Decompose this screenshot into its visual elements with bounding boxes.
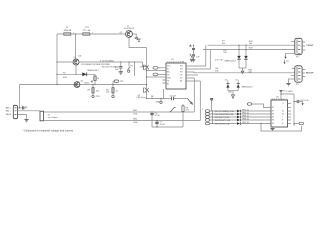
svg-text:P3: P3 bbox=[272, 114, 274, 116]
LED D2 bbox=[238, 45, 240, 68]
power flag U2 bbox=[280, 90, 282, 92]
wire Q1 emitter bbox=[75, 65, 77, 74]
ground U2 bbox=[272, 127, 274, 128]
svg-text:BAT -: BAT - bbox=[6, 110, 11, 113]
wire U1 bottom drop bbox=[163, 89, 165, 99]
svg-text:NDS: NDS bbox=[85, 82, 90, 84]
gate clamp bbox=[132, 34, 136, 37]
transistor T1 bbox=[126, 31, 133, 38]
svg-text:MSP430F11: MSP430F11 bbox=[272, 99, 288, 101]
svg-text:PR1: PR1 bbox=[96, 96, 101, 98]
svg-text:4.7uF: 4.7uF bbox=[160, 124, 166, 126]
svg-text:BLOCK ON (3900): BLOCK ON (3900) bbox=[102, 66, 119, 68]
wire lower mid rail bbox=[57, 73, 95, 75]
svg-text:G: G bbox=[282, 123, 284, 125]
svg-text:SB: SB bbox=[180, 81, 183, 83]
svg-text:PACK: PACK bbox=[6, 113, 12, 116]
wire BAT- to module bbox=[18, 110, 41, 112]
svg-text:P3: P3 bbox=[296, 57, 299, 59]
wire U1 ST2 to J2 bbox=[190, 71, 295, 74]
J1 pin4 to ground bbox=[286, 53, 295, 57]
wire U1 pin GND bbox=[147, 76, 163, 78]
switch common rail bbox=[211, 111, 213, 124]
svg-text:P2: P2 bbox=[286, 61, 289, 63]
svg-text:SW4 (RIGHT) 0.5A: SW4 (RIGHT) 0.5A bbox=[215, 119, 231, 122]
svg-text:GND: GND bbox=[288, 91, 293, 93]
transistor Q4 bbox=[143, 65, 149, 70]
capacitor C5 bbox=[22, 106, 23, 109]
svg-text:bq24002PW: bq24002PW bbox=[168, 61, 185, 63]
svg-text:10k: 10k bbox=[223, 52, 227, 54]
svg-text:GND: GND bbox=[228, 91, 233, 93]
svg-text:10k: 10k bbox=[106, 92, 110, 94]
svg-text:PTC 1A: PTC 1A bbox=[83, 29, 91, 32]
svg-text:PB1_A: PB1_A bbox=[242, 108, 249, 111]
svg-text:V: V bbox=[282, 103, 284, 105]
svg-text:4.7k ON (3900): 4.7k ON (3900) bbox=[100, 61, 114, 63]
transistor Q5 bbox=[143, 88, 149, 93]
wire under-IC rail bbox=[147, 98, 188, 100]
wire row A bbox=[44, 111, 195, 113]
svg-text:X2: X2 bbox=[282, 114, 284, 116]
transistor Q2 bbox=[74, 82, 80, 88]
U1 right pins bbox=[186, 66, 190, 81]
svg-text:1uF: 1uF bbox=[196, 57, 200, 59]
svg-text:VCC: VCC bbox=[283, 91, 288, 93]
wire U2 top to right rail bbox=[281, 94, 294, 126]
junction bbox=[75, 33, 76, 34]
switch row 2 bbox=[205, 113, 209, 116]
terminal P1 bbox=[160, 99, 162, 102]
U2 right stubs bbox=[288, 104, 292, 124]
svg-text:SW3 (LEFT) 0.5A: SW3 (LEFT) 0.5A bbox=[215, 116, 230, 119]
J1 right stubs bbox=[302, 42, 305, 50]
test point row 0 bbox=[247, 103, 251, 106]
svg-text:P4: P4 bbox=[272, 117, 274, 119]
switch row 4 bbox=[205, 119, 209, 122]
svg-text:R4: R4 bbox=[88, 89, 91, 91]
svg-text:PB4_A: PB4_A bbox=[242, 117, 249, 120]
svg-text:MBR0520LT: MBR0520LT bbox=[225, 61, 237, 63]
fuse F1 bbox=[64, 33, 71, 35]
wire left rail bbox=[56, 34, 58, 85]
wire U1 pin VS bbox=[147, 70, 163, 72]
svg-text:PB5_A: PB5_A bbox=[242, 121, 249, 124]
svg-text:MBR0520LT: MBR0520LT bbox=[242, 86, 254, 88]
connector J2 bbox=[295, 66, 302, 82]
J2 pin4 to ground bbox=[289, 79, 295, 83]
resistor R3 bbox=[94, 74, 96, 84]
svg-text:MBR0520LT: MBR0520LT bbox=[88, 70, 100, 72]
switch row 3 bbox=[205, 116, 209, 119]
svg-text:BAT +: BAT + bbox=[6, 107, 12, 110]
capacitor C4 cluster bbox=[193, 45, 195, 59]
wire U1 ST1 up bbox=[190, 45, 206, 66]
resistor R9 bbox=[182, 104, 184, 127]
svg-text:P5: P5 bbox=[272, 120, 274, 122]
capacitor C2 bbox=[120, 62, 122, 71]
wire top rail bbox=[57, 33, 126, 35]
J2 pin3 stub bbox=[291, 75, 295, 77]
resistor R4 chain bbox=[92, 85, 94, 96]
svg-text:GND: GND bbox=[156, 102, 161, 104]
test point TP4 bbox=[299, 122, 303, 125]
svg-text:FIELD PUMP: FIELD PUMP bbox=[306, 72, 314, 74]
svg-text:GND: GND bbox=[167, 78, 172, 80]
svg-text:MINI 2A: MINI 2A bbox=[64, 29, 72, 32]
svg-text:P6: P6 bbox=[272, 123, 274, 125]
J1 pin1 stub bbox=[291, 41, 295, 43]
switch row 1 bbox=[205, 110, 209, 113]
svg-text:4.7uF: 4.7uF bbox=[155, 115, 161, 117]
svg-text:P4: P4 bbox=[296, 84, 299, 86]
capacitor C8 bbox=[294, 101, 303, 103]
wire rail R2TOP bbox=[203, 49, 295, 51]
svg-text:Q1: Q1 bbox=[73, 57, 77, 59]
connector P3 battery bbox=[13, 105, 17, 118]
svg-text:4.7k: 4.7k bbox=[185, 110, 190, 112]
U1 left pins bbox=[163, 68, 167, 83]
wire bottom loop bbox=[261, 124, 302, 132]
svg-text:R: R bbox=[282, 120, 284, 122]
svg-text:SW1 (FORWARD) 0.5A: SW1 (FORWARD) 0.5A bbox=[215, 110, 235, 113]
ground arrow bbox=[242, 68, 244, 71]
IC U2 bbox=[271, 100, 288, 127]
diode D4 bbox=[227, 80, 229, 91]
svg-text:ST1: ST1 bbox=[180, 66, 183, 68]
svg-text:1k: 1k bbox=[97, 78, 100, 80]
net vertical VBAT bbox=[146, 48, 148, 99]
LED D3 bbox=[239, 45, 246, 68]
wire T1 drain drop bbox=[129, 37, 147, 47]
diode D1 bbox=[82, 72, 86, 76]
svg-text:BT: BT bbox=[167, 84, 169, 86]
svg-text:1: 1 bbox=[202, 109, 204, 111]
svg-text:100k: 100k bbox=[133, 122, 138, 124]
wire drop to Q1 bbox=[75, 34, 77, 59]
ground bbox=[119, 72, 123, 75]
resistor R5 chain bbox=[112, 85, 114, 96]
transistor Q1 bbox=[73, 59, 79, 65]
svg-text:10k: 10k bbox=[215, 70, 219, 72]
pushbutton SW1 bbox=[188, 99, 193, 105]
U1 pin names bbox=[167, 66, 183, 86]
svg-text:SO: SO bbox=[180, 78, 183, 80]
switch row 5 bbox=[205, 122, 209, 125]
connector J1 bbox=[295, 38, 302, 54]
svg-text:TP1: TP1 bbox=[120, 81, 125, 83]
capacitor C3 series bbox=[171, 97, 173, 101]
svg-text:T: T bbox=[282, 117, 283, 119]
svg-text:100k: 100k bbox=[63, 77, 68, 79]
svg-text:+: + bbox=[21, 105, 23, 107]
svg-text:C3 1uF: C3 1uF bbox=[169, 96, 176, 98]
svg-text:TS: TS bbox=[167, 81, 170, 83]
power flag VCC4 bbox=[210, 99, 212, 101]
svg-text:* Optimized for required volta: * Optimized for required voltage and cur… bbox=[23, 128, 74, 132]
pushbutton SW3 bbox=[171, 108, 176, 112]
U2 pin names bbox=[272, 103, 284, 125]
svg-text:abc Super I: abc Super I bbox=[48, 116, 59, 119]
wire mid rail through Q1 bbox=[57, 62, 147, 67]
svg-text:SW5 (STOP) 0.5A: SW5 (STOP) 0.5A bbox=[215, 122, 230, 125]
svg-text:1k: 1k bbox=[116, 90, 119, 92]
svg-text:4.7k ON: 4.7k ON bbox=[215, 60, 223, 62]
svg-text:TO A PUMP: TO A PUMP bbox=[306, 44, 314, 47]
wire bottom rail BAT+ bbox=[20, 84, 147, 86]
svg-text:PG: PG bbox=[180, 72, 183, 74]
svg-text:ST2: ST2 bbox=[180, 69, 183, 71]
svg-text:PB3_A: PB3_A bbox=[242, 114, 249, 117]
test point TP2 bbox=[153, 66, 158, 69]
svg-text:1nF: 1nF bbox=[115, 69, 119, 71]
svg-text:PB2_A: PB2_A bbox=[242, 111, 249, 114]
svg-text:C5: C5 bbox=[25, 106, 28, 108]
module X1 bbox=[40, 111, 44, 121]
svg-text:S1: S1 bbox=[130, 65, 133, 67]
fuse F2 bbox=[83, 33, 90, 35]
pushbutton SW2 bbox=[190, 54, 193, 62]
test point TP3 bbox=[153, 73, 158, 76]
svg-text:10k: 10k bbox=[222, 43, 226, 45]
wire cluster bottom bbox=[152, 126, 183, 128]
J2 right stubs bbox=[302, 70, 305, 77]
svg-text:10k: 10k bbox=[96, 90, 100, 92]
svg-text:VS: VS bbox=[167, 75, 170, 77]
wire PACK to ground bbox=[18, 114, 27, 119]
jumper JP1 bbox=[128, 62, 130, 67]
svg-text:EN: EN bbox=[167, 72, 170, 74]
svg-text:5V: 5V bbox=[225, 80, 228, 82]
svg-text:100k: 100k bbox=[133, 114, 138, 116]
wire U1 SO down bbox=[190, 78, 195, 112]
svg-text:10k: 10k bbox=[78, 56, 82, 58]
wire rail R1TOP bbox=[208, 44, 295, 46]
wire stub bbox=[134, 62, 136, 76]
svg-text:VCC: VCC bbox=[167, 66, 171, 68]
svg-text:LED Disp: LED Disp bbox=[137, 97, 147, 99]
wire U1 CE up bbox=[190, 74, 199, 76]
svg-text:CE: CE bbox=[180, 75, 183, 77]
diode D5 bbox=[228, 80, 238, 91]
svg-text:IN: IN bbox=[167, 69, 169, 71]
capacitor C7 bbox=[156, 121, 158, 128]
capacitor C6 bbox=[151, 112, 153, 127]
svg-text:SW2 (REVERSE) 0.5A: SW2 (REVERSE) 0.5A bbox=[215, 113, 234, 116]
wire U1 SB down bbox=[190, 81, 201, 121]
svg-text:X1: X1 bbox=[282, 111, 284, 113]
ground arrow above J2 bbox=[284, 60, 286, 63]
test point TP1 bbox=[113, 81, 114, 84]
ground arrow clamp bbox=[232, 91, 234, 95]
svg-text:P1: P1 bbox=[272, 107, 274, 109]
wire row B bbox=[44, 120, 201, 122]
svg-text:FDN340P: FDN340P bbox=[124, 28, 135, 30]
svg-text:P2: P2 bbox=[272, 111, 274, 113]
svg-text:C8 0.1uF: C8 0.1uF bbox=[300, 100, 309, 102]
wire BAT+ riser bbox=[18, 85, 22, 108]
IC U1 bbox=[166, 63, 186, 89]
